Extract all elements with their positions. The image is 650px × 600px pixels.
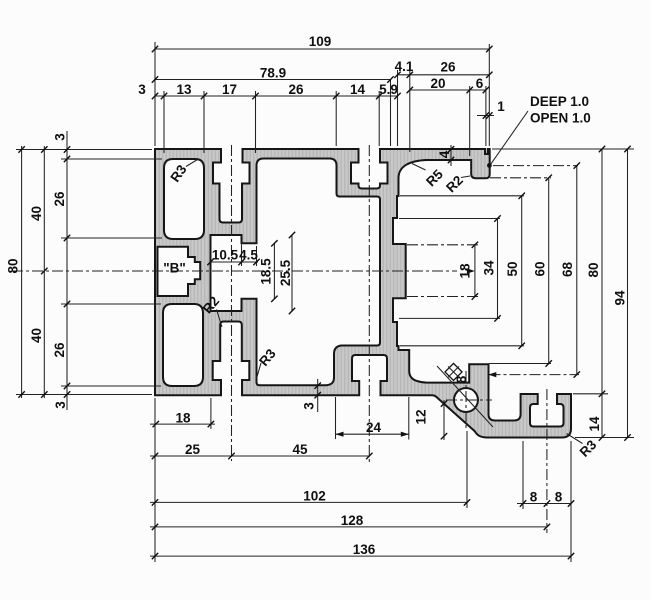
svg-text:60: 60 [533, 261, 548, 276]
svg-text:45: 45 [292, 442, 308, 457]
svg-text:68: 68 [560, 262, 575, 278]
svg-text:26: 26 [52, 342, 67, 358]
svg-text:10.5: 10.5 [212, 248, 239, 263]
svg-text:4.5: 4.5 [239, 248, 258, 263]
svg-text:26: 26 [52, 191, 67, 207]
svg-text:26: 26 [440, 60, 456, 75]
svg-text:136: 136 [353, 542, 376, 557]
svg-text:109: 109 [309, 34, 332, 49]
svg-text:14: 14 [587, 416, 602, 432]
svg-text:4: 4 [437, 150, 452, 158]
svg-text:24: 24 [366, 420, 382, 435]
svg-text:5.9: 5.9 [379, 82, 398, 97]
svg-text:3: 3 [53, 401, 68, 409]
svg-text:"B": "B" [163, 261, 186, 276]
svg-text:3: 3 [302, 402, 317, 410]
svg-text:20: 20 [430, 76, 445, 91]
svg-text:4.1: 4.1 [395, 59, 414, 74]
svg-text:3: 3 [138, 82, 146, 97]
svg-text:DEEP 1.0: DEEP 1.0 [530, 94, 589, 109]
svg-text:8: 8 [454, 375, 469, 383]
svg-text:3: 3 [53, 133, 68, 141]
svg-text:50: 50 [505, 261, 520, 276]
svg-text:8: 8 [530, 490, 538, 505]
svg-text:6: 6 [476, 76, 484, 91]
svg-text:102: 102 [303, 489, 326, 504]
svg-text:OPEN 1.0: OPEN 1.0 [530, 111, 591, 126]
svg-text:80: 80 [6, 258, 21, 273]
svg-text:40: 40 [29, 328, 44, 343]
svg-text:1: 1 [497, 99, 505, 114]
svg-text:18.5: 18.5 [259, 258, 274, 285]
svg-text:13: 13 [176, 82, 192, 97]
svg-text:40: 40 [29, 206, 44, 221]
svg-text:17: 17 [222, 82, 237, 97]
svg-text:78.9: 78.9 [260, 66, 286, 81]
svg-text:34: 34 [482, 260, 497, 276]
svg-text:18: 18 [458, 263, 473, 279]
svg-text:94: 94 [613, 290, 628, 306]
svg-text:25: 25 [185, 442, 201, 457]
svg-text:14: 14 [350, 82, 366, 97]
svg-text:80: 80 [586, 262, 601, 277]
svg-text:128: 128 [341, 513, 364, 528]
svg-text:18: 18 [175, 410, 191, 425]
svg-text:8: 8 [555, 490, 563, 505]
svg-text:26: 26 [288, 82, 304, 97]
svg-text:25.5: 25.5 [278, 259, 293, 286]
svg-text:12: 12 [414, 409, 429, 424]
